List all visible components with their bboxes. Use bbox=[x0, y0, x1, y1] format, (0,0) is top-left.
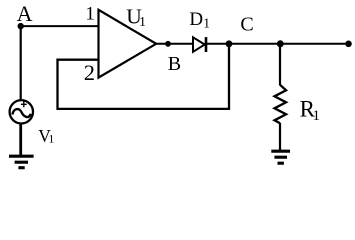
junction dot at R1 top bbox=[277, 40, 284, 47]
AC source V1 circle bbox=[10, 100, 33, 123]
V1 sine wave bbox=[12, 109, 30, 117]
node B junction dot bbox=[165, 41, 171, 47]
V1 plus sign bbox=[21, 101, 27, 107]
wire feedback: node C down, left, up to op-amp input 2 bbox=[58, 44, 230, 109]
svg-text:C: C bbox=[240, 14, 253, 36]
diode D1 cathode bar bbox=[205, 37, 208, 52]
wire A to op-amp input 1 bbox=[21, 25, 98, 27]
wire diode cathode to right terminal bbox=[206, 43, 349, 45]
svg-text:1: 1 bbox=[313, 108, 321, 124]
wire A down to V1 source bbox=[20, 25, 22, 100]
wire op-amp output to diode anode bbox=[156, 43, 193, 45]
svg-text:B: B bbox=[168, 53, 181, 75]
svg-text:A: A bbox=[17, 1, 33, 26]
op-amp U1 triangle bbox=[99, 10, 157, 78]
wire node to resistor R1 top bbox=[279, 44, 281, 85]
ground under V1 bbox=[9, 155, 34, 158]
node A junction dot bbox=[18, 23, 24, 29]
svg-text:1: 1 bbox=[139, 15, 146, 30]
diode D1 triangle bbox=[193, 37, 205, 52]
svg-text:D: D bbox=[189, 9, 203, 30]
right output terminal dot bbox=[345, 41, 352, 48]
svg-text:1: 1 bbox=[48, 132, 54, 146]
wire V1 bottom to ground bbox=[19, 123, 22, 155]
node C junction dot bbox=[226, 40, 233, 47]
ground under R1 bbox=[271, 150, 290, 153]
svg-text:2: 2 bbox=[84, 60, 95, 85]
wire resistor R1 bottom to ground bbox=[279, 123, 281, 152]
svg-text:1: 1 bbox=[85, 4, 95, 25]
svg-text:1: 1 bbox=[203, 15, 210, 30]
resistor R1 zigzag bbox=[275, 85, 287, 124]
